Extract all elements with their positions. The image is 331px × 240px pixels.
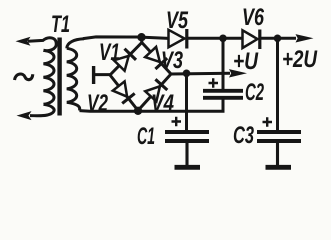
bridge left terminal bar <box>92 66 95 84</box>
wire: bridge right node to +U arrow <box>171 72 230 76</box>
wire: secondary top to V5 <box>83 37 169 39</box>
label +U <box>234 52 258 69</box>
transformer T1 secondary winding <box>67 39 84 49</box>
diode V3 (top-right edge) <box>145 47 160 62</box>
wire: C1 bottom lead <box>185 142 188 166</box>
wire: secondary bottom along to C2 bottom <box>80 97 224 111</box>
transformer core bar <box>57 38 61 116</box>
wire: V5 to V6 <box>187 37 243 40</box>
AC tilde symbol <box>15 74 33 80</box>
label T1 <box>52 15 69 32</box>
+2U output arrow <box>296 34 314 42</box>
label V6 <box>244 8 265 25</box>
label V4 <box>153 94 174 111</box>
capacitor C3 top plate <box>257 130 301 134</box>
wire: C3 top stub <box>276 38 279 130</box>
capacitor C1 plus sign <box>172 117 182 126</box>
label +2U <box>283 50 317 67</box>
capacitor C2 top plate <box>203 89 243 93</box>
wire: C1 top stub from +U node <box>185 73 188 130</box>
junction node at bridge top <box>137 33 145 41</box>
label V1 <box>100 43 119 60</box>
capacitor C1 top plate <box>165 130 209 134</box>
primary top lead arrow <box>16 37 31 46</box>
capacitor C1 bottom plate <box>165 139 209 143</box>
capacitor C3 bottom plate <box>257 139 301 143</box>
transformer T1 primary winding bottom hook <box>30 104 54 115</box>
transformer T1 primary winding arcs <box>44 50 55 104</box>
bridge left terminal stub wire <box>95 73 112 76</box>
label V2 <box>88 94 107 111</box>
diode V2 (bottom-left edge) <box>113 81 127 96</box>
capacitor C2 bottom plate <box>203 96 243 100</box>
diode V6 <box>243 30 258 48</box>
C1 bottom terminal bar <box>175 165 201 170</box>
wire: V6 to output <box>260 37 296 40</box>
bridge edge TR wire <box>142 43 171 75</box>
wire: C3 bottom lead <box>276 142 279 166</box>
label C1 <box>138 127 155 144</box>
label V3 <box>163 51 183 68</box>
capacitor C3 plus sign <box>263 117 273 126</box>
capacitor C2 plus sign <box>209 78 219 87</box>
bridge edge BR wire <box>138 74 171 111</box>
primary bottom lead arrow <box>17 111 32 120</box>
transformer T1 primary winding top hook <box>28 38 56 51</box>
diode V5 <box>169 30 185 48</box>
diode V1 (top-left edge) <box>114 56 129 71</box>
junction node at C3 top stub <box>274 35 282 43</box>
junction node at C1 top <box>183 70 191 78</box>
junction node at bridge bottom <box>134 107 142 115</box>
label V5 <box>168 11 189 28</box>
wire: bridge top vertex stub <box>140 37 143 44</box>
bridge edge TL wire <box>110 43 142 76</box>
label C3 <box>234 126 254 143</box>
C3 bottom terminal bar <box>266 165 292 170</box>
+U output arrow <box>229 69 247 77</box>
wire: C2 top stub <box>222 38 225 90</box>
bridge edge BL wire <box>110 75 138 111</box>
junction node at C2 top stub <box>219 35 227 43</box>
label C2 <box>246 83 264 100</box>
diode V4 (bottom-right edge) <box>145 86 160 101</box>
